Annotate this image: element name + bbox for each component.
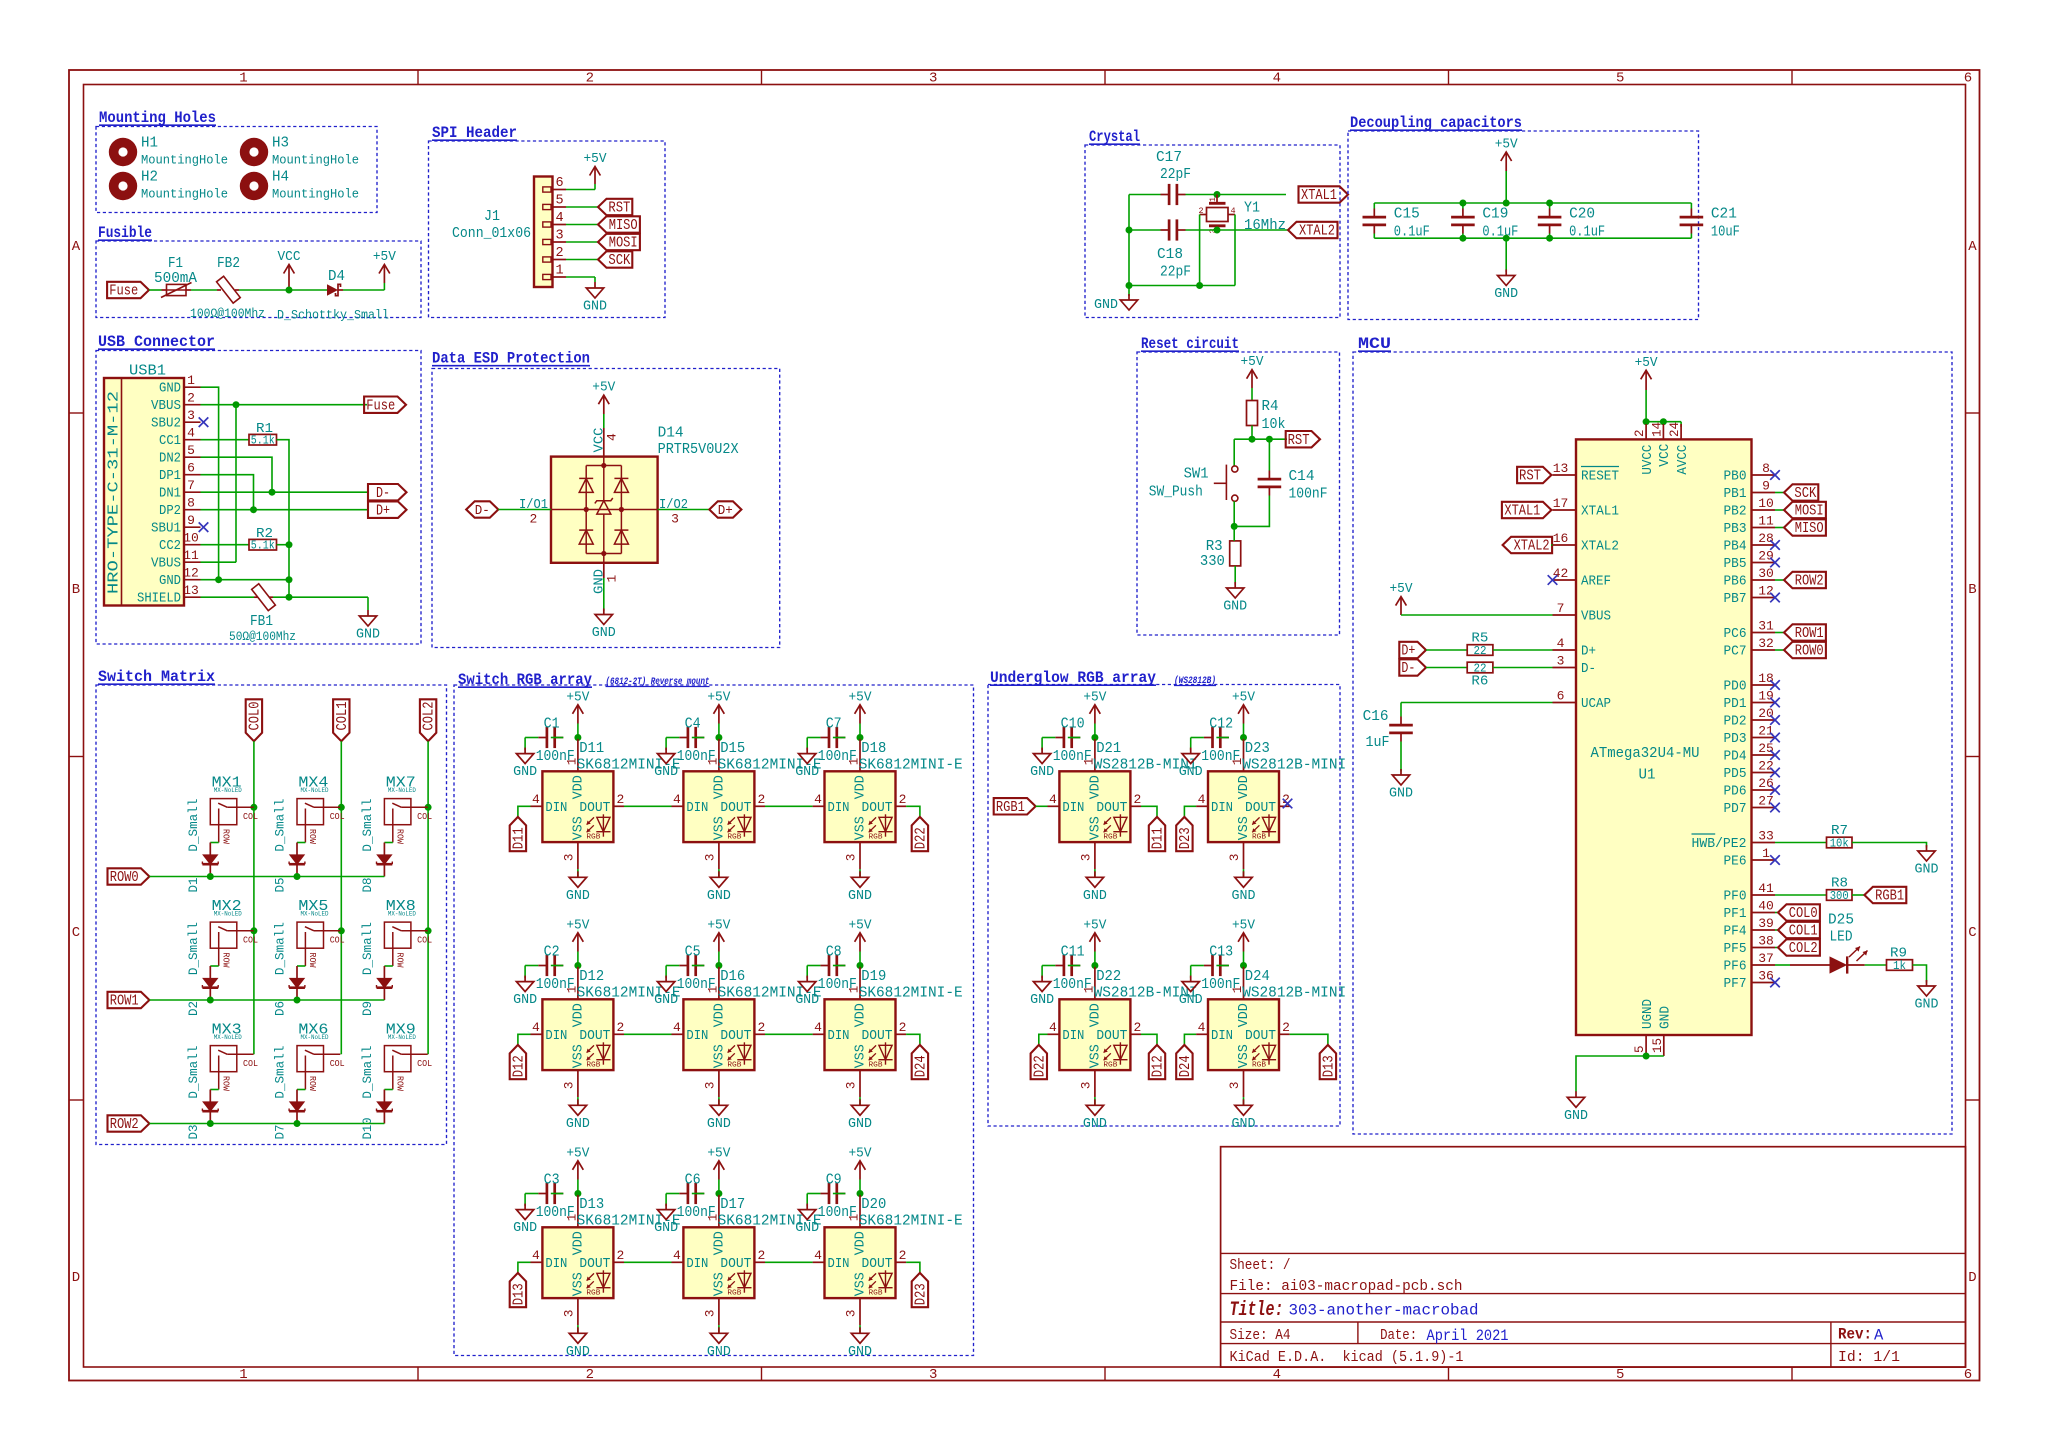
- svg-text:XTAL2: XTAL2: [1514, 539, 1550, 555]
- svg-text:D23: D23: [914, 1283, 930, 1305]
- global label RGB1 (underglow): [994, 798, 1036, 816]
- svg-text:C16: C16: [1363, 708, 1389, 725]
- switch MX1 and diode D1: [210, 775, 258, 845]
- global label XTAL1: [1299, 186, 1349, 204]
- svg-text:GND: GND: [1659, 1006, 1674, 1029]
- power flag VCC: [278, 250, 301, 290]
- global label D24 (out): [912, 1045, 930, 1079]
- svg-text:3: 3: [562, 1082, 576, 1090]
- MCU right pins PB PC PD PE PF: [1692, 461, 1776, 992]
- svg-text:1uF: 1uF: [1366, 734, 1390, 751]
- resistor R9 1k: [1887, 960, 1913, 973]
- svg-text:D_Small: D_Small: [273, 1045, 288, 1098]
- svg-text:1: 1: [605, 575, 620, 583]
- svg-text:VBUS: VBUS: [151, 557, 181, 572]
- svg-text:RGB1: RGB1: [996, 800, 1025, 816]
- svg-text:C5: C5: [685, 944, 701, 961]
- rgb led D18 SK6812MINI-E: [813, 739, 963, 869]
- junction c18 left: [1126, 227, 1133, 234]
- svg-text:1: 1: [239, 71, 247, 87]
- svg-text:4: 4: [1049, 1020, 1057, 1035]
- svg-text:PB0: PB0: [1724, 470, 1747, 485]
- svg-text:SBU1: SBU1: [151, 522, 181, 537]
- resistor R4 10k: [1247, 401, 1258, 426]
- wire PB6 ROW2: [1775, 579, 1784, 581]
- svg-text:SBU2: SBU2: [151, 417, 181, 432]
- global label COL0 (mcu): [1778, 904, 1820, 922]
- global label D12 (in): [510, 1045, 528, 1079]
- svg-text:+5V: +5V: [1495, 138, 1519, 153]
- wire D- to R6: [1426, 667, 1467, 669]
- junction rail top: [1503, 200, 1510, 207]
- svg-text:22pF: 22pF: [1160, 166, 1191, 183]
- svg-text:303-another-macrobad: 303-another-macrobad: [1289, 1302, 1479, 1320]
- MCU pin 6 UCAP: [1553, 702, 1577, 704]
- no-connect PD7: [1770, 803, 1780, 813]
- svg-text:2: 2: [757, 1020, 765, 1035]
- svg-text:Sheet: /: Sheet: /: [1230, 1257, 1291, 1274]
- svg-text:PD4: PD4: [1724, 750, 1747, 765]
- junction COL1 r2: [338, 927, 345, 934]
- svg-text:D15: D15: [720, 740, 745, 757]
- global label D23 (underglow in): [1176, 817, 1194, 851]
- svg-text:SW1: SW1: [1184, 466, 1209, 483]
- svg-text:DOUT: DOUT: [862, 1257, 893, 1272]
- svg-text:RST: RST: [608, 201, 630, 217]
- junction COL2 r1: [425, 804, 432, 811]
- svg-text:GND: GND: [1223, 600, 1247, 615]
- junction uvcc: [1643, 418, 1650, 425]
- global label XTAL1 (mcu): [1502, 502, 1552, 520]
- svg-text:PD5: PD5: [1724, 767, 1747, 782]
- wire ucap to C16: [1401, 702, 1553, 704]
- svg-text:GND: GND: [1179, 993, 1203, 1008]
- power flag +5V mcu: [1635, 356, 1659, 390]
- svg-text:VDD: VDD: [712, 775, 727, 799]
- svg-text:RGB: RGB: [1252, 1062, 1267, 1070]
- svg-text:DOUT: DOUT: [720, 1257, 751, 1272]
- svg-text:D2: D2: [186, 1001, 201, 1016]
- svg-text:D21: D21: [1096, 740, 1121, 757]
- ground r7: [1915, 845, 1939, 878]
- svg-text:DOUT: DOUT: [1245, 1029, 1276, 1044]
- svg-text:D13: D13: [512, 1283, 528, 1305]
- svg-text:AVCC: AVCC: [1676, 445, 1691, 475]
- ground usb: [356, 610, 380, 643]
- svg-text:D7: D7: [273, 1125, 288, 1140]
- svg-text:VDD: VDD: [571, 1231, 586, 1255]
- svg-text:300: 300: [1830, 890, 1849, 903]
- svg-text:18: 18: [1758, 671, 1774, 686]
- svg-text:GND: GND: [848, 1345, 872, 1360]
- svg-text:GND: GND: [654, 1221, 678, 1236]
- svg-text:PD1: PD1: [1724, 697, 1747, 712]
- svg-text:+5V: +5V: [849, 918, 873, 933]
- svg-text:3: 3: [703, 1310, 717, 1318]
- wire PB2 MOSI: [1775, 509, 1784, 511]
- svg-text:DIN: DIN: [686, 801, 708, 816]
- ground D11: [566, 869, 590, 904]
- svg-text:C: C: [72, 925, 80, 941]
- svg-text:A: A: [72, 239, 81, 255]
- svg-text:VDD: VDD: [854, 775, 869, 799]
- svg-text:MX-NoLED: MX-NoLED: [388, 911, 416, 919]
- global label D- (mcu): [1399, 659, 1426, 677]
- ground D23: [1232, 869, 1256, 904]
- svg-text:D_Small: D_Small: [273, 922, 288, 975]
- global label MISO (mcu): [1784, 519, 1826, 537]
- svg-text:2: 2: [1133, 792, 1141, 807]
- svg-text:D23: D23: [1245, 740, 1270, 757]
- svg-text:30: 30: [1758, 566, 1774, 581]
- svg-text:9: 9: [1762, 479, 1770, 494]
- junction ROW0 a: [207, 873, 214, 880]
- global label D23 (out): [912, 1273, 930, 1307]
- capacitor C3 100nF with +5V and GND: [513, 1146, 590, 1236]
- resistor R8 300: [1827, 890, 1853, 903]
- svg-text:C12: C12: [1209, 716, 1233, 733]
- svg-text:26: 26: [1758, 776, 1774, 791]
- junction vcc: [1660, 418, 1667, 425]
- svg-text:D8: D8: [360, 878, 375, 893]
- svg-text:2: 2: [529, 511, 537, 526]
- svg-text:Id: 1/1: Id: 1/1: [1838, 1349, 1900, 1366]
- svg-text:Title:: Title:: [1230, 1299, 1284, 1322]
- global label MISO (spi): [598, 216, 640, 234]
- ground D19: [848, 1097, 872, 1132]
- svg-text:4: 4: [555, 211, 563, 226]
- svg-text:MX-NoLED: MX-NoLED: [388, 787, 416, 795]
- MCU pin 42 AREF: [1553, 579, 1577, 581]
- svg-text:COL: COL: [417, 1059, 432, 1069]
- junction DN: [269, 489, 276, 496]
- no-connect PF7: [1770, 978, 1780, 988]
- svg-text:RGB: RGB: [869, 1062, 884, 1070]
- svg-text:+5V: +5V: [1232, 918, 1256, 933]
- svg-text:0.1uF: 0.1uF: [1569, 224, 1605, 241]
- wire D23 in: [1184, 806, 1196, 817]
- svg-text:VBUS: VBUS: [1581, 610, 1611, 625]
- wire PF6 to LED: [1775, 964, 1790, 966]
- svg-text:3: 3: [555, 229, 563, 244]
- svg-text:3: 3: [1228, 1082, 1242, 1090]
- svg-text:+5V: +5V: [1083, 690, 1107, 705]
- svg-text:WS2812B-MINI: WS2812B-MINI: [1242, 985, 1346, 1002]
- svg-text:16: 16: [1553, 531, 1569, 546]
- svg-text:COL: COL: [330, 935, 345, 945]
- svg-text:0.1uF: 0.1uF: [1394, 224, 1430, 241]
- ground D17: [707, 1325, 731, 1360]
- svg-text:GND: GND: [707, 1345, 731, 1360]
- svg-text:MISO: MISO: [1795, 521, 1824, 537]
- svg-text:11: 11: [1758, 514, 1774, 529]
- global label D+ (usb): [368, 502, 407, 520]
- svg-text:MountingHole: MountingHole: [272, 154, 359, 168]
- wire pin1 to GND: [566, 276, 595, 278]
- connector J1 Conn_01x06: [452, 176, 566, 287]
- svg-text:10: 10: [183, 531, 199, 546]
- svg-text:25: 25: [1758, 741, 1774, 756]
- global label ROW0: [108, 868, 150, 886]
- junction reset c: [1231, 523, 1238, 530]
- wire C18 left: [1129, 229, 1161, 231]
- svg-text:DOUT: DOUT: [579, 1257, 610, 1272]
- mounting hole H1: [109, 135, 228, 168]
- svg-text:GND: GND: [1083, 1117, 1107, 1132]
- switch MX4 and diode D5: [297, 775, 345, 845]
- capacitor C9 100nF with +5V and GND: [795, 1146, 872, 1236]
- svg-text:+5V: +5V: [849, 690, 873, 705]
- rgb led D24 WS2812B-MINI: [1196, 967, 1346, 1097]
- svg-text:D11: D11: [1151, 827, 1167, 849]
- svg-text:D5: D5: [273, 878, 288, 893]
- wire gnd stem: [1505, 238, 1507, 272]
- section Data ESD Protection: [432, 350, 780, 648]
- svg-text:Size: A4: Size: A4: [1230, 1327, 1291, 1344]
- svg-text:D24: D24: [914, 1055, 930, 1077]
- svg-text:H2: H2: [141, 169, 158, 186]
- switch SW1 SW_Push: [1149, 465, 1238, 502]
- connector USB1 HRO-TYPE-C-31-M-12: [104, 363, 201, 607]
- global label D12 (underglow out): [1149, 1045, 1167, 1079]
- wire vcc stub: [1662, 422, 1664, 424]
- global label D- (usb): [368, 484, 407, 502]
- svg-text:Reset circuit: Reset circuit: [1141, 335, 1239, 353]
- ground D16: [707, 1097, 731, 1132]
- svg-text:11: 11: [183, 548, 199, 563]
- svg-text:0.1uF: 0.1uF: [1482, 224, 1518, 241]
- svg-text:VDD: VDD: [1088, 775, 1103, 799]
- svg-text:D+: D+: [1581, 645, 1596, 660]
- svg-text:SCK: SCK: [608, 253, 630, 269]
- ground D12: [566, 1097, 590, 1132]
- svg-text:D: D: [72, 1270, 80, 1286]
- ground r9: [1915, 980, 1939, 1013]
- wire output row0: [906, 806, 920, 817]
- wire +5V stem: [1505, 171, 1507, 203]
- svg-text:24: 24: [1668, 422, 1682, 437]
- svg-text:2: 2: [1282, 1020, 1290, 1035]
- rgb led D21 WS2812B-MINI: [1048, 739, 1198, 869]
- svg-text:COL0: COL0: [248, 702, 264, 731]
- svg-text:GND: GND: [513, 993, 537, 1008]
- ground D18: [848, 869, 872, 904]
- global label COL0: [246, 699, 264, 741]
- svg-text:4: 4: [532, 792, 540, 807]
- svg-text:4: 4: [673, 792, 681, 807]
- wire ROW0: [149, 876, 384, 878]
- svg-text:COL1: COL1: [1789, 924, 1818, 940]
- ferrite bead FB1: [229, 584, 296, 644]
- svg-text:GND: GND: [848, 1117, 872, 1132]
- svg-text:D3: D3: [186, 1125, 201, 1140]
- power flag +5V esd: [592, 381, 616, 414]
- wire PC6 ROW1: [1775, 632, 1784, 634]
- svg-text:27: 27: [1758, 794, 1774, 809]
- svg-text:39: 39: [1758, 916, 1774, 931]
- global label RST (mcu): [1517, 467, 1551, 485]
- svg-text:ROW: ROW: [221, 829, 231, 845]
- junction reset a: [1249, 436, 1256, 443]
- svg-text:4: 4: [814, 1020, 822, 1035]
- global label Fuse: [107, 282, 149, 300]
- svg-text:D: D: [1968, 1270, 1976, 1286]
- svg-text:H1: H1: [141, 135, 158, 152]
- junction ROW1 b: [294, 997, 301, 1004]
- section Fusible: [96, 224, 421, 318]
- svg-text:D-: D-: [376, 486, 390, 502]
- svg-text:42: 42: [1553, 566, 1569, 581]
- svg-text:+5V: +5V: [1390, 582, 1414, 597]
- section Decoupling capacitors: [1348, 114, 1699, 320]
- ground D24: [1232, 1097, 1256, 1132]
- wire PF0 to R8: [1775, 894, 1827, 896]
- wire COL1 vertical: [340, 741, 342, 1054]
- wire ROW2: [149, 1123, 384, 1125]
- svg-text:GND: GND: [1494, 287, 1518, 302]
- section MCU: [1353, 335, 1952, 1134]
- wire C17 left: [1129, 194, 1161, 196]
- svg-text:VDD: VDD: [1237, 775, 1252, 799]
- wire chain row0 a: [624, 805, 672, 807]
- ground D13: [566, 1325, 590, 1360]
- svg-text:R2: R2: [256, 526, 273, 542]
- svg-text:DIN: DIN: [828, 801, 850, 816]
- svg-text:D19: D19: [861, 968, 886, 985]
- svg-text:9: 9: [187, 513, 195, 528]
- no-connect PB0: [1770, 470, 1780, 480]
- MCU U1 body: [1576, 439, 1752, 1035]
- svg-text:C19: C19: [1482, 206, 1508, 223]
- svg-text:1: 1: [239, 1367, 247, 1383]
- svg-text:HWB/PE2: HWB/PE2: [1692, 837, 1747, 852]
- svg-text:D+: D+: [376, 503, 390, 519]
- wire chain row0 b: [765, 805, 813, 807]
- junction GND a: [215, 576, 222, 583]
- svg-text:ROW: ROW: [395, 1076, 405, 1092]
- svg-text:RGB: RGB: [727, 1290, 742, 1298]
- svg-text:R9: R9: [1890, 946, 1907, 962]
- wire +5V rail: [1374, 202, 1691, 204]
- svg-text:6: 6: [1557, 689, 1565, 704]
- svg-text:COL: COL: [243, 935, 258, 945]
- svg-text:ATmega32U4-MU: ATmega32U4-MU: [1591, 745, 1700, 762]
- svg-text:ROW0: ROW0: [1795, 644, 1824, 660]
- global label D22 (underglow in): [1031, 1045, 1049, 1079]
- svg-text:COL: COL: [417, 935, 432, 945]
- svg-text:C15: C15: [1394, 206, 1420, 223]
- capacitor C18 22pF: [1161, 219, 1186, 240]
- svg-text:40: 40: [1758, 899, 1774, 914]
- svg-text:+5V: +5V: [1232, 690, 1256, 705]
- global label COL1 (mcu): [1778, 922, 1820, 940]
- wire D- to D14: [498, 509, 551, 511]
- svg-text:2: 2: [555, 246, 563, 261]
- svg-text:VSS: VSS: [1237, 1044, 1252, 1068]
- svg-text:15: 15: [1651, 1038, 1665, 1053]
- wire Y1 gnd legs: [1199, 215, 1201, 286]
- global label COL2: [420, 699, 438, 741]
- svg-text:DIN: DIN: [686, 1257, 708, 1272]
- wire C17 to XTAL1: [1186, 194, 1287, 196]
- svg-text:D13: D13: [579, 1196, 604, 1213]
- svg-text:3: 3: [1079, 1082, 1093, 1090]
- svg-text:17: 17: [1553, 496, 1569, 511]
- svg-text:D18: D18: [861, 740, 886, 757]
- svg-text:RST: RST: [1519, 469, 1541, 485]
- svg-text:VSS: VSS: [571, 1044, 586, 1068]
- svg-text:1k: 1k: [1893, 960, 1906, 973]
- wire D4 to +5V: [343, 289, 384, 291]
- rgb led D11 SK6812MINI-E: [531, 739, 681, 869]
- svg-text:8: 8: [187, 496, 195, 511]
- svg-text:D_Small: D_Small: [360, 922, 375, 975]
- wire chain row2 a: [624, 1261, 672, 1263]
- wire chain row2 b: [765, 1261, 813, 1263]
- section USB Connector: [96, 333, 421, 644]
- svg-text:R4: R4: [1262, 398, 1279, 415]
- svg-text:4: 4: [814, 792, 822, 807]
- svg-text:PB1: PB1: [1724, 487, 1747, 502]
- rgb led D17 SK6812MINI-E: [672, 1195, 822, 1325]
- junction ROW2 b: [294, 1120, 301, 1127]
- svg-text:14: 14: [1650, 422, 1664, 437]
- svg-text:D_Small: D_Small: [186, 1045, 201, 1098]
- wire DP1 pin6: [201, 475, 254, 510]
- global label D24 (underglow in): [1176, 1045, 1194, 1079]
- svg-text:2: 2: [586, 1367, 594, 1383]
- ground c16: [1389, 769, 1413, 802]
- wire PF1 COL0: [1775, 912, 1778, 914]
- svg-text:10k: 10k: [1830, 838, 1849, 851]
- section Reset circuit: [1137, 335, 1340, 635]
- resistor R5 22: [1467, 645, 1493, 658]
- svg-text:D10: D10: [360, 1118, 375, 1140]
- svg-text:VDD: VDD: [571, 1003, 586, 1027]
- rgb led D16 SK6812MINI-E: [672, 967, 822, 1097]
- global label MOSI (mcu): [1784, 502, 1826, 520]
- svg-text:+5V: +5V: [707, 918, 731, 933]
- svg-text:8: 8: [1762, 461, 1770, 476]
- global label D13 (underglow out): [1320, 1045, 1338, 1079]
- title block: [1221, 1147, 1966, 1367]
- svg-text:GND: GND: [356, 628, 380, 643]
- svg-text:VDD: VDD: [712, 1003, 727, 1027]
- svg-text:MX-NoLED: MX-NoLED: [214, 1034, 242, 1042]
- svg-text:VDD: VDD: [1237, 1003, 1252, 1027]
- wire R5 to pin: [1493, 649, 1553, 651]
- svg-text:SK6812MINI-E: SK6812MINI-E: [859, 985, 963, 1002]
- svg-text:XTAL1: XTAL1: [1504, 504, 1540, 520]
- svg-text:RESET: RESET: [1581, 470, 1619, 485]
- svg-text:PD7: PD7: [1724, 802, 1747, 817]
- global label D22 (out): [912, 817, 930, 851]
- svg-text:C21: C21: [1711, 206, 1737, 223]
- svg-text:4: 4: [532, 1020, 540, 1035]
- section Switch RGB array: [454, 671, 974, 1356]
- svg-text:4: 4: [1049, 792, 1057, 807]
- svg-text:VSS: VSS: [712, 816, 727, 840]
- power flag +5V fusible: [373, 250, 397, 283]
- svg-text:VSS: VSS: [571, 1272, 586, 1296]
- svg-text:5: 5: [1633, 1045, 1647, 1053]
- svg-text:ROW: ROW: [395, 829, 405, 845]
- svg-text:100Ω@100Mhz: 100Ω@100Mhz: [190, 307, 265, 321]
- wire pin3: [566, 241, 598, 243]
- MCU pin 16 XTAL2: [1553, 544, 1577, 546]
- svg-text:PB6: PB6: [1724, 575, 1747, 590]
- svg-text:VDD: VDD: [854, 1231, 869, 1255]
